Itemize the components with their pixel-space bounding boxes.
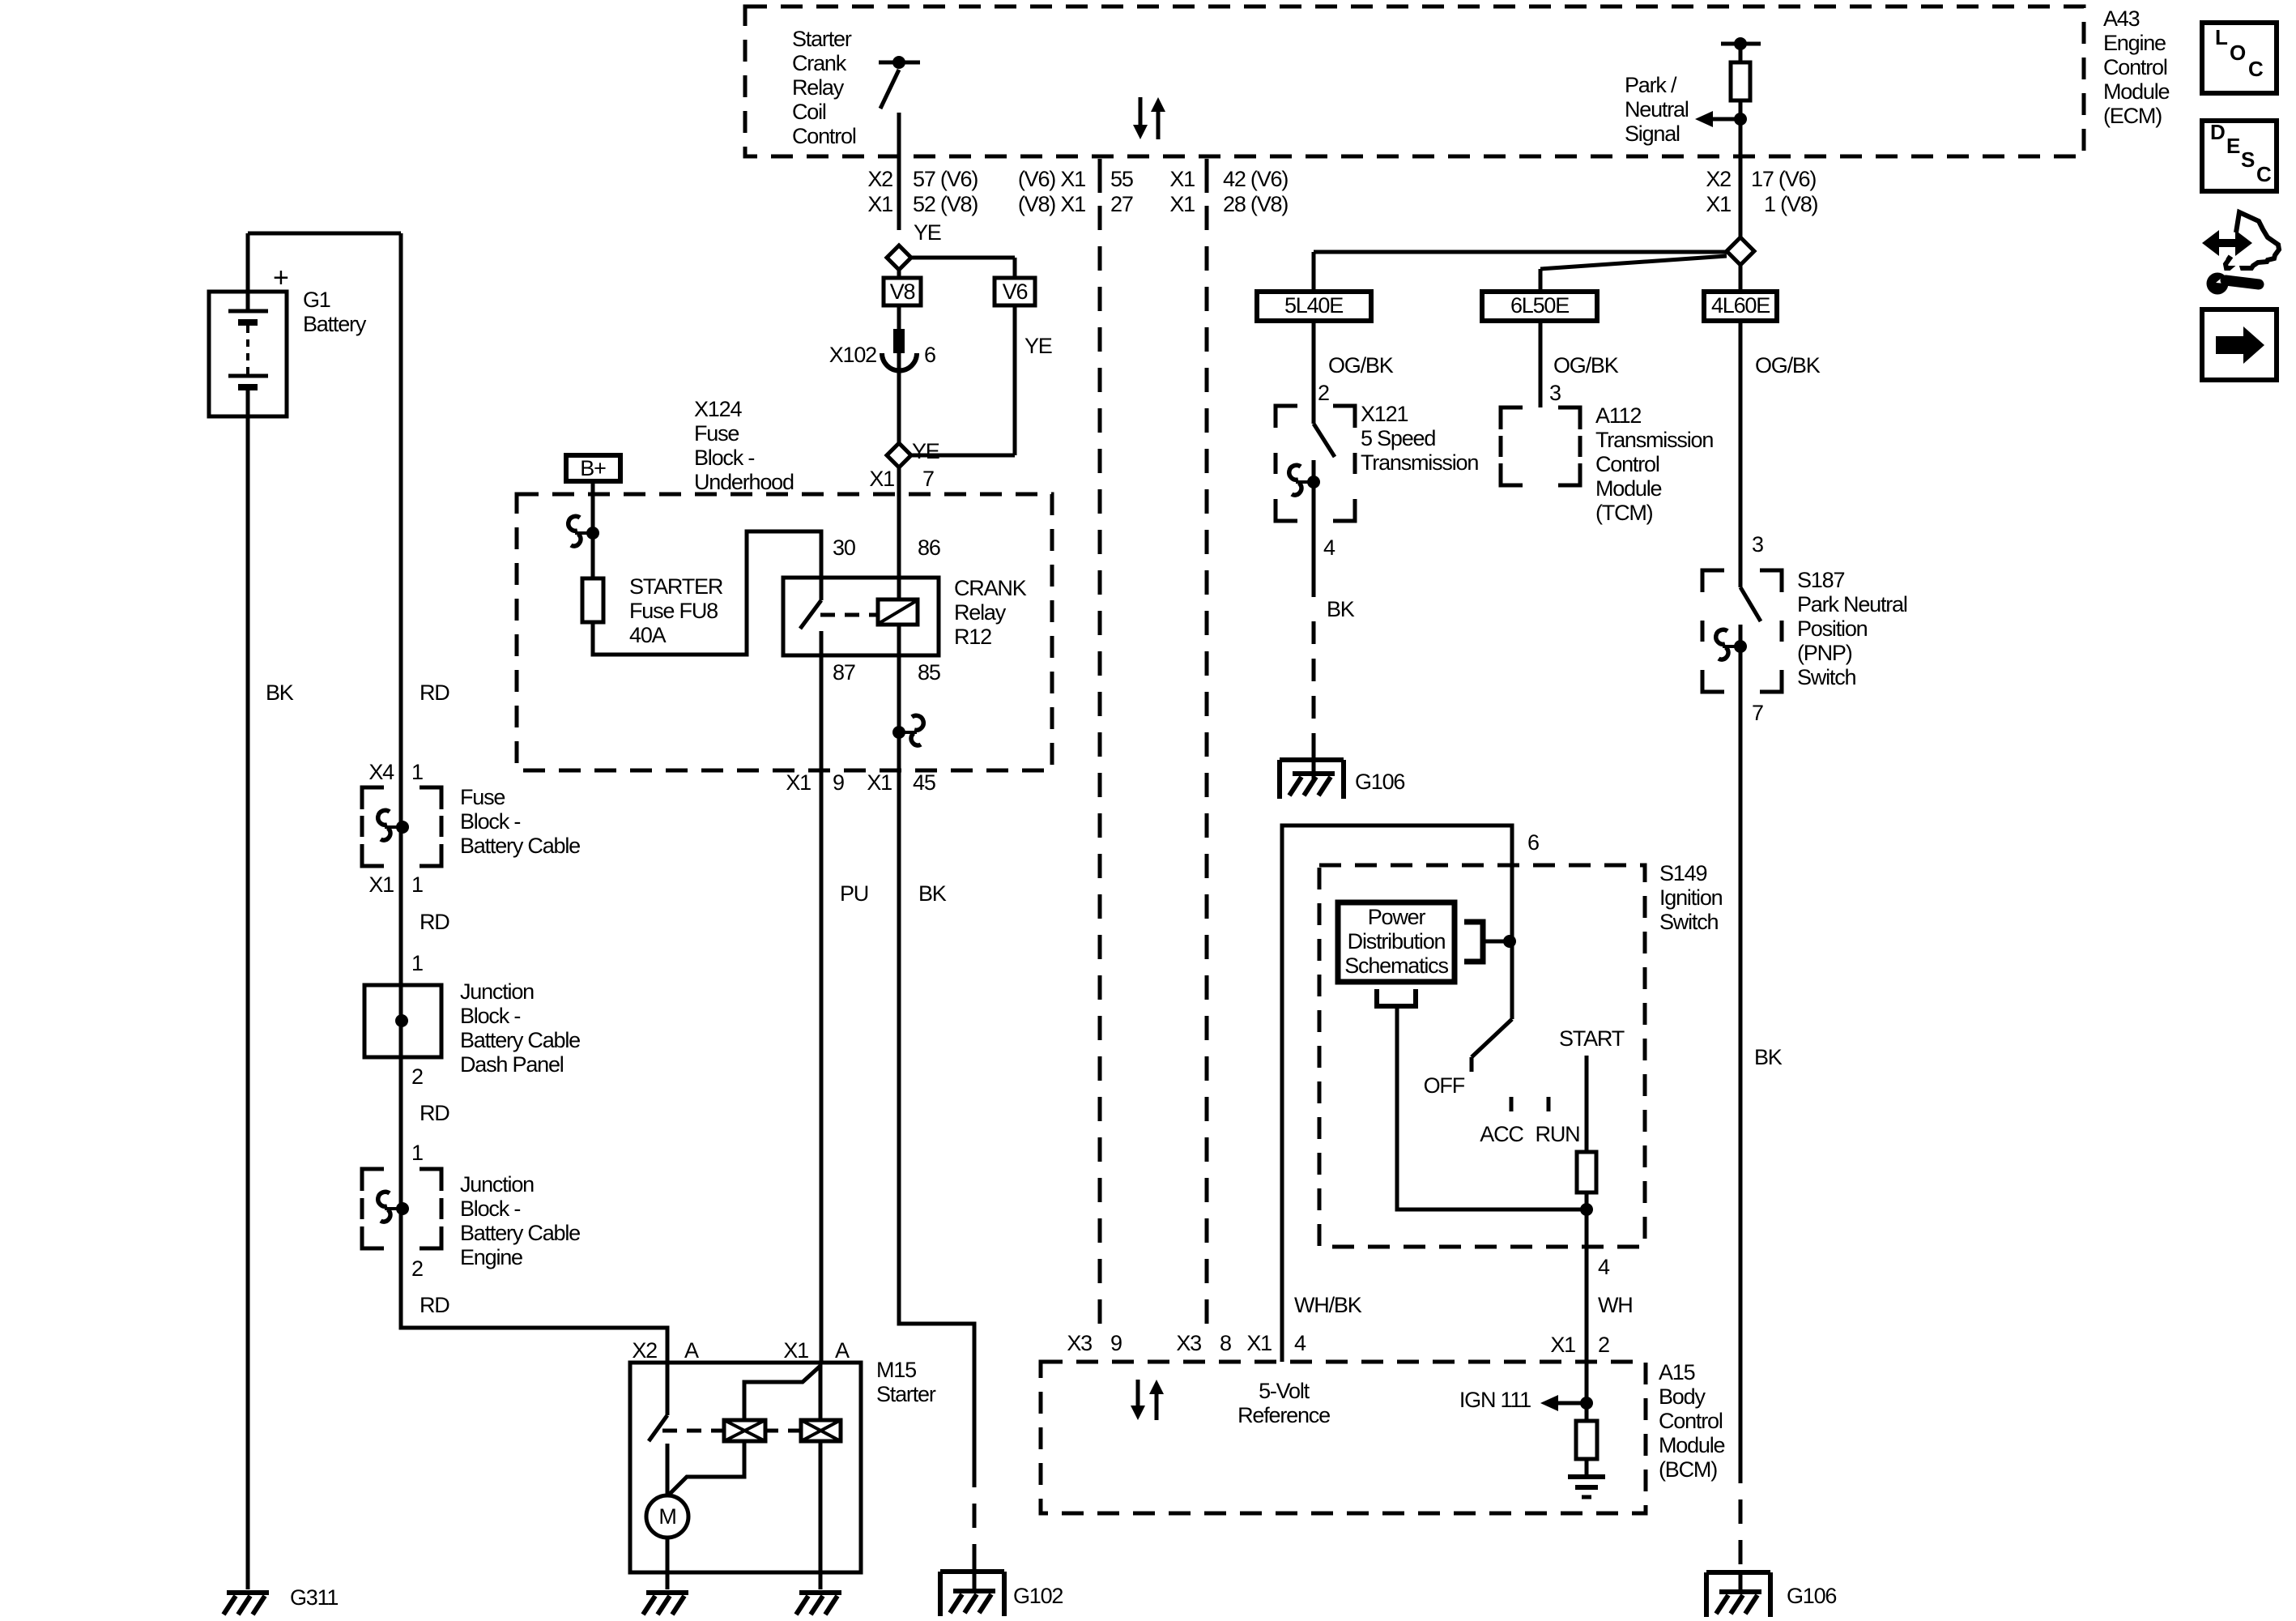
svg-text:Control: Control	[1659, 1409, 1723, 1433]
svg-text:Module: Module	[2103, 79, 2170, 104]
svg-text:1: 1	[411, 951, 423, 975]
svg-text:BK: BK	[1327, 597, 1355, 621]
svg-text:Module: Module	[1595, 476, 1662, 501]
svg-text:S149: S149	[1659, 861, 1706, 885]
svg-text:Starter: Starter	[876, 1382, 936, 1406]
svg-text:86: 86	[918, 535, 940, 560]
svg-text:X1: X1	[783, 1338, 808, 1363]
svg-text:2: 2	[1318, 381, 1329, 405]
svg-text:X102: X102	[829, 343, 876, 367]
svg-text:3: 3	[1752, 532, 1763, 557]
svg-text:4L60E: 4L60E	[1711, 293, 1770, 318]
svg-text:Starter: Starter	[792, 27, 852, 51]
svg-text:7: 7	[1752, 701, 1763, 725]
svg-text:X2: X2	[867, 167, 892, 191]
svg-text:OG/BK: OG/BK	[1755, 353, 1821, 378]
svg-text:WH/BK: WH/BK	[1294, 1293, 1362, 1317]
svg-text:Relay: Relay	[792, 75, 845, 100]
svg-text:RUN: RUN	[1536, 1122, 1580, 1146]
svg-text:6: 6	[1527, 830, 1539, 855]
svg-text:YE: YE	[1024, 334, 1052, 358]
svg-text:+: +	[273, 262, 288, 293]
svg-text:X1: X1	[1246, 1331, 1272, 1355]
svg-text:STARTER: STARTER	[629, 574, 723, 599]
svg-text:2: 2	[1598, 1333, 1609, 1357]
svg-text:X1: X1	[786, 770, 811, 795]
svg-text:1: 1	[411, 760, 423, 784]
svg-text:Transmission: Transmission	[1361, 450, 1478, 475]
svg-text:Schematics: Schematics	[1344, 953, 1448, 978]
svg-text:5-Volt: 5-Volt	[1259, 1379, 1310, 1403]
svg-text:X3: X3	[1067, 1331, 1092, 1355]
svg-text:X1: X1	[1169, 167, 1195, 191]
svg-text:1 (V8): 1 (V8)	[1764, 192, 1818, 216]
svg-text:(ECM): (ECM)	[2103, 104, 2162, 128]
svg-text:Junction: Junction	[460, 1172, 534, 1197]
svg-text:Battery Cable: Battery Cable	[460, 1028, 580, 1052]
svg-text:(BCM): (BCM)	[1659, 1457, 1717, 1482]
svg-text:3: 3	[1549, 381, 1561, 405]
svg-text:M15: M15	[876, 1358, 916, 1382]
svg-text:Switch: Switch	[1797, 665, 1856, 689]
svg-text:X1: X1	[869, 467, 894, 491]
svg-text:CRANK: CRANK	[954, 576, 1027, 600]
svg-text:G106: G106	[1355, 770, 1404, 794]
svg-text:40A: 40A	[629, 623, 667, 647]
svg-text:17 (V6): 17 (V6)	[1751, 167, 1816, 191]
svg-text:7: 7	[922, 467, 934, 491]
svg-text:S: S	[2241, 147, 2255, 172]
svg-text:(PNP): (PNP)	[1797, 641, 1852, 665]
svg-text:−: −	[273, 400, 288, 431]
svg-text:Fuse FU8: Fuse FU8	[629, 599, 718, 623]
svg-text:BK: BK	[918, 881, 947, 906]
svg-text:OG/BK: OG/BK	[1553, 353, 1619, 378]
svg-text:G311: G311	[290, 1585, 338, 1610]
svg-text:Control: Control	[2103, 55, 2167, 79]
svg-text:Position: Position	[1797, 616, 1868, 641]
svg-text:RD: RD	[420, 1101, 449, 1125]
svg-text:X1: X1	[1706, 192, 1731, 216]
svg-text:57 (V6): 57 (V6)	[913, 167, 978, 191]
svg-text:Battery Cable: Battery Cable	[460, 1221, 580, 1245]
svg-text:(V8) X1: (V8) X1	[1018, 192, 1085, 216]
svg-text:A43: A43	[2103, 6, 2140, 31]
svg-text:6L50E: 6L50E	[1510, 293, 1569, 318]
svg-text:M: M	[658, 1504, 675, 1529]
svg-text:30: 30	[833, 535, 855, 560]
svg-text:28 (V8): 28 (V8)	[1223, 192, 1288, 216]
svg-text:Block -: Block -	[460, 1197, 520, 1221]
svg-text:A15: A15	[1659, 1360, 1695, 1384]
svg-text:X3: X3	[1176, 1331, 1201, 1355]
svg-text:E: E	[2226, 134, 2240, 158]
svg-text:RD: RD	[420, 680, 449, 705]
svg-text:Reference: Reference	[1237, 1403, 1330, 1427]
svg-text:8: 8	[1220, 1331, 1231, 1355]
svg-text:X4: X4	[368, 760, 394, 784]
svg-text:BK: BK	[266, 680, 294, 705]
svg-text:X2: X2	[1706, 167, 1731, 191]
svg-text:9: 9	[1110, 1331, 1122, 1355]
svg-text:BK: BK	[1754, 1045, 1783, 1069]
svg-text:Fuse: Fuse	[460, 785, 505, 809]
svg-text:D: D	[2210, 120, 2225, 144]
svg-text:Block -: Block -	[694, 446, 754, 470]
svg-text:1: 1	[411, 872, 423, 897]
svg-text:L: L	[2215, 25, 2228, 49]
svg-text:ACC: ACC	[1480, 1122, 1523, 1146]
svg-text:X1: X1	[867, 770, 892, 795]
svg-text:X1: X1	[368, 872, 394, 897]
svg-text:Crank: Crank	[792, 51, 847, 75]
svg-text:4: 4	[1598, 1255, 1610, 1279]
svg-text:IGN 111: IGN 111	[1459, 1388, 1531, 1412]
svg-text:(V6) X1: (V6) X1	[1018, 167, 1085, 191]
svg-text:27: 27	[1110, 192, 1133, 216]
svg-text:Ignition: Ignition	[1659, 885, 1723, 910]
svg-text:OG/BK: OG/BK	[1328, 353, 1394, 378]
svg-text:X124: X124	[694, 397, 742, 421]
svg-text:(TCM): (TCM)	[1595, 501, 1653, 525]
svg-text:Battery: Battery	[303, 312, 367, 336]
svg-text:A: A	[835, 1338, 850, 1363]
svg-text:Neutral: Neutral	[1625, 97, 1689, 122]
svg-text:2: 2	[411, 1256, 423, 1281]
svg-text:Coil: Coil	[792, 100, 826, 124]
svg-text:Engine: Engine	[2103, 31, 2166, 55]
svg-text:55: 55	[1110, 167, 1133, 191]
svg-text:Park Neutral: Park Neutral	[1797, 592, 1907, 616]
svg-text:Body: Body	[1659, 1384, 1706, 1409]
svg-text:4: 4	[1294, 1331, 1306, 1355]
svg-text:85: 85	[918, 660, 940, 685]
svg-text:O: O	[2230, 41, 2246, 65]
svg-text:Fuse: Fuse	[694, 421, 739, 446]
svg-text:1: 1	[411, 1141, 423, 1165]
svg-text:RD: RD	[420, 1293, 449, 1317]
svg-text:A: A	[684, 1338, 699, 1363]
svg-text:87: 87	[833, 660, 855, 685]
svg-text:S187: S187	[1797, 568, 1844, 592]
svg-text:Park /: Park /	[1625, 73, 1677, 97]
svg-text:YE: YE	[912, 439, 939, 463]
svg-text:6: 6	[924, 343, 935, 367]
svg-text:G1: G1	[303, 288, 330, 312]
svg-text:52 (V8): 52 (V8)	[913, 192, 978, 216]
svg-text:Control: Control	[792, 124, 856, 148]
svg-text:X1: X1	[1169, 192, 1195, 216]
svg-text:9: 9	[833, 770, 844, 795]
svg-text:Power: Power	[1368, 905, 1426, 929]
svg-text:42 (V6): 42 (V6)	[1223, 167, 1288, 191]
svg-text:Switch: Switch	[1659, 910, 1719, 934]
svg-text:Relay: Relay	[954, 600, 1007, 625]
svg-text:Engine: Engine	[460, 1245, 522, 1269]
svg-text:PU: PU	[840, 881, 868, 906]
svg-text:Signal: Signal	[1625, 122, 1680, 146]
svg-text:5L40E: 5L40E	[1284, 293, 1343, 318]
svg-text:Battery Cable: Battery Cable	[460, 834, 580, 858]
svg-text:Module: Module	[1659, 1433, 1725, 1457]
svg-text:X121: X121	[1361, 402, 1408, 426]
svg-text:Block -: Block -	[460, 1004, 520, 1028]
svg-text:V6: V6	[1003, 279, 1028, 304]
svg-text:5 Speed: 5 Speed	[1361, 426, 1435, 450]
svg-text:Dash Panel: Dash Panel	[460, 1052, 564, 1077]
svg-text:C: C	[2248, 57, 2264, 81]
svg-text:Junction: Junction	[460, 979, 534, 1004]
svg-text:X1: X1	[1550, 1333, 1575, 1357]
svg-text:Block -: Block -	[460, 809, 520, 834]
svg-text:R12: R12	[954, 625, 991, 649]
svg-text:45: 45	[913, 770, 935, 795]
svg-text:Underhood: Underhood	[694, 470, 794, 494]
svg-text:X2: X2	[632, 1338, 657, 1363]
svg-text:RD: RD	[420, 910, 449, 934]
svg-text:YE: YE	[914, 220, 941, 245]
svg-text:Distribution: Distribution	[1348, 929, 1446, 953]
svg-text:2: 2	[411, 1064, 423, 1089]
svg-text:START: START	[1559, 1026, 1625, 1051]
svg-text:C: C	[2256, 162, 2272, 186]
svg-text:V8: V8	[890, 279, 915, 304]
svg-text:OFF: OFF	[1424, 1073, 1465, 1098]
svg-text:WH: WH	[1598, 1293, 1633, 1317]
svg-text:G106: G106	[1787, 1584, 1836, 1608]
svg-text:4: 4	[1323, 535, 1335, 560]
svg-text:X1: X1	[867, 192, 892, 216]
svg-text:Transmission: Transmission	[1595, 428, 1713, 452]
svg-text:A112: A112	[1595, 403, 1641, 428]
svg-text:B+: B+	[580, 456, 606, 480]
svg-text:Control: Control	[1595, 452, 1659, 476]
svg-text:G102: G102	[1013, 1584, 1063, 1608]
